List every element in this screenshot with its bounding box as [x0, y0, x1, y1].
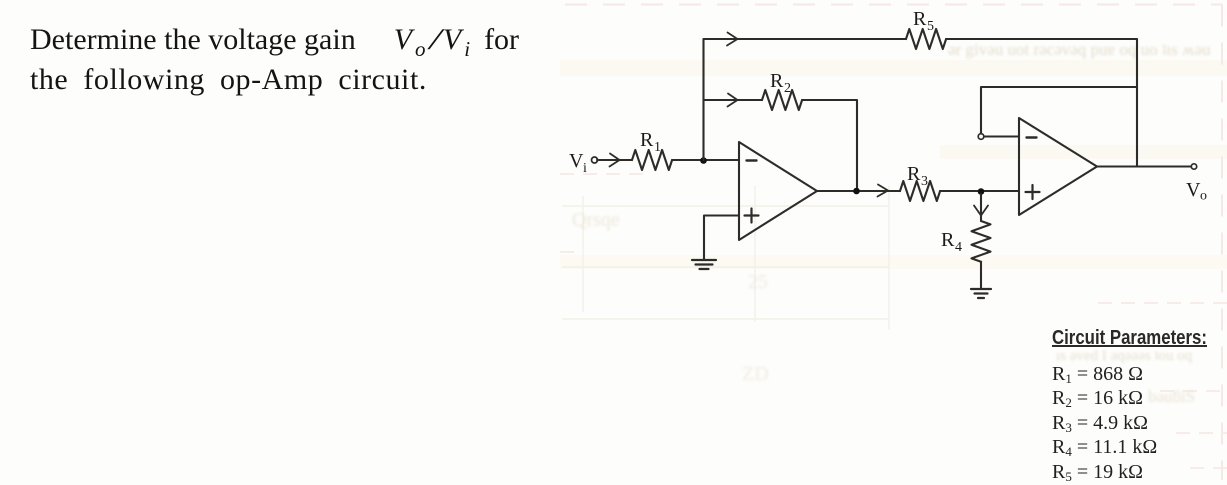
wire U2 output to Vo: [1097, 165, 1191, 167]
wire R1 to inverting input of U1: [672, 159, 739, 161]
svg-text:25: 25: [748, 271, 768, 293]
current arrow on input wire: [610, 154, 620, 167]
wire right vertical to output: [1136, 39, 1138, 167]
wire U1 plus input to ground: [704, 216, 739, 260]
svg-text:3: 3: [921, 174, 928, 189]
node A junction dot: [700, 157, 707, 164]
resistor R2: [762, 90, 802, 110]
U2 plus sign: [1026, 185, 1040, 199]
resistor R3: [900, 181, 940, 201]
current arrow on R2 branch: [728, 94, 738, 107]
svg-text:i: i: [583, 161, 587, 176]
svg-text:R: R: [907, 163, 921, 185]
label R3: [907, 163, 928, 189]
wire R3 to U2 plus input: [940, 190, 1019, 192]
svg-text:ZD: ZD: [742, 363, 769, 385]
svg-text:5: 5: [927, 19, 934, 34]
node C junction dot: [978, 188, 985, 195]
label R5: [913, 8, 934, 34]
node B junction dot at U1 output: [853, 188, 860, 195]
resistor R1: [632, 150, 672, 170]
ground G1: [692, 260, 716, 269]
wire R2 to U1 output: [802, 100, 857, 191]
wire R2 branch left: [704, 99, 763, 101]
label Vi: [569, 150, 587, 176]
wire feedback up and across: [981, 87, 1137, 134]
svg-text:2: 2: [784, 81, 791, 96]
current arrow before R3: [878, 185, 889, 197]
resistor R5: [906, 29, 946, 49]
wire U2 inverting input to feedback tap: [984, 135, 1019, 137]
node feedback tap open circle: [978, 134, 984, 140]
node Vi input terminal: [592, 157, 598, 163]
node Vo output terminal: [1191, 164, 1196, 169]
wire Vi to R1: [597, 159, 632, 161]
wire top rail right segment: [946, 38, 1137, 40]
svg-text:R: R: [640, 129, 654, 151]
question text: [30, 20, 519, 99]
svg-text:o: o: [1200, 189, 1207, 204]
svg-text:R: R: [770, 70, 784, 92]
wire R4 to ground: [980, 262, 982, 288]
svg-text:R: R: [913, 8, 927, 30]
U2 minus sign: [1027, 136, 1037, 138]
current arrow on top rail: [727, 33, 738, 46]
svg-text:V: V: [569, 150, 584, 172]
label R4: [941, 229, 962, 255]
svg-text:V: V: [1186, 179, 1201, 201]
resistor R4: [972, 221, 991, 262]
op-amp U1: [739, 142, 817, 240]
label Vo: [1186, 179, 1207, 204]
wire U1 output to R3: [817, 190, 900, 192]
label R1: [640, 129, 661, 155]
svg-text:Qrsqe: Qrsqe: [572, 209, 620, 231]
label R2: [770, 70, 791, 96]
wire node C down to R4 with arrow: [980, 194, 982, 221]
svg-text:ər givəu uot rəcəvəq puɐ oq uo: ər givəu uot rəcəvəq puɐ oq uo ʇıs ʍəu: [948, 40, 1211, 59]
svg-text:4: 4: [955, 240, 962, 255]
U1 plus sign: [745, 209, 759, 223]
wire node A up to top rail: [702, 39, 704, 160]
ground G2: [971, 289, 991, 298]
circuit parameters list: [1052, 327, 1227, 484]
wire top rail left segment: [704, 38, 907, 40]
op-amp U2: [1019, 118, 1097, 215]
U1 minus sign: [747, 159, 757, 161]
current arrow into R4: [974, 206, 988, 216]
svg-text:1: 1: [654, 140, 661, 155]
svg-text:R: R: [941, 229, 955, 251]
